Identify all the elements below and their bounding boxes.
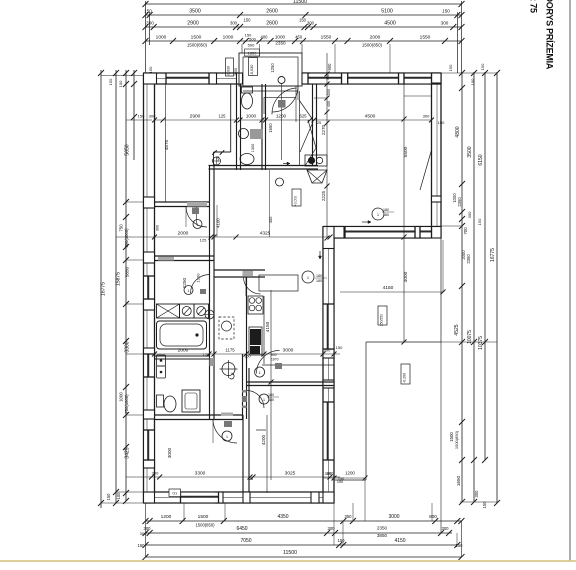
svg-text:7050: 7050 — [240, 538, 251, 544]
svg-text:-0,200: -0,200 — [403, 373, 407, 383]
svg-text:2000: 2000 — [178, 348, 189, 354]
svg-text:1500: 1500 — [191, 35, 202, 41]
svg-text:300: 300 — [146, 21, 154, 26]
svg-text:300: 300 — [230, 21, 238, 26]
svg-text:3500: 3500 — [189, 9, 201, 15]
svg-text:4150: 4150 — [383, 285, 394, 291]
svg-text:1: 1 — [263, 398, 265, 402]
svg-text:3000: 3000 — [388, 514, 399, 520]
svg-text:150: 150 — [138, 114, 145, 119]
svg-text:125: 125 — [203, 352, 210, 357]
svg-text:1200: 1200 — [196, 273, 201, 283]
svg-text:11500: 11500 — [283, 550, 297, 556]
svg-text:180: 180 — [383, 213, 389, 217]
svg-text:180: 180 — [268, 393, 274, 397]
svg-text:3850: 3850 — [377, 533, 388, 538]
svg-text:150: 150 — [144, 9, 152, 14]
svg-text:300: 300 — [140, 531, 147, 536]
svg-text:800: 800 — [271, 353, 277, 357]
svg-text:150: 150 — [438, 120, 445, 125]
svg-text:150: 150 — [244, 18, 252, 23]
svg-text:4150: 4150 — [394, 538, 405, 544]
svg-text:180: 180 — [268, 398, 274, 402]
svg-text:2350: 2350 — [466, 254, 471, 264]
svg-text:750: 750 — [119, 224, 124, 232]
svg-text:4100: 4100 — [216, 218, 221, 228]
svg-text:M 1: 75: M 1: 75 — [529, 0, 539, 13]
svg-text:1300: 1300 — [251, 144, 255, 152]
svg-text:300: 300 — [474, 490, 479, 498]
svg-text:3300: 3300 — [125, 341, 131, 352]
svg-text:1500: 1500 — [198, 514, 209, 520]
svg-text:4000: 4000 — [403, 271, 409, 282]
svg-text:180: 180 — [316, 274, 322, 278]
svg-text:125: 125 — [219, 114, 227, 119]
svg-text:5500: 5500 — [403, 146, 409, 157]
svg-text:2350: 2350 — [275, 41, 286, 46]
svg-text:4200: 4200 — [261, 434, 266, 445]
svg-text:150: 150 — [338, 477, 344, 481]
svg-text:1: 1 — [307, 276, 309, 280]
svg-text:1000: 1000 — [156, 35, 167, 41]
svg-text:3425: 3425 — [125, 447, 131, 458]
svg-text:400: 400 — [327, 101, 331, 107]
svg-text:1200: 1200 — [161, 514, 172, 520]
svg-text:400: 400 — [268, 216, 273, 223]
svg-text:4575: 4575 — [164, 139, 169, 150]
svg-text:300: 300 — [327, 471, 334, 476]
svg-text:150: 150 — [336, 345, 343, 350]
svg-text:450: 450 — [295, 35, 303, 40]
svg-text:1970: 1970 — [271, 358, 279, 362]
svg-text:4525: 4525 — [454, 324, 460, 335]
svg-text:100: 100 — [470, 78, 475, 85]
svg-text:1550: 1550 — [420, 35, 431, 41]
svg-text:300: 300 — [423, 114, 430, 119]
svg-text:1500(850): 1500(850) — [362, 43, 383, 48]
svg-text:300: 300 — [152, 471, 159, 476]
svg-text:150: 150 — [108, 78, 113, 85]
svg-text:150: 150 — [456, 543, 464, 548]
svg-text:6150: 6150 — [478, 154, 484, 165]
svg-text:3000: 3000 — [283, 348, 294, 354]
svg-text:150: 150 — [477, 218, 482, 225]
svg-text:1: 1 — [188, 289, 190, 293]
svg-text:1: 1 — [197, 223, 199, 227]
svg-text:10075: 10075 — [467, 330, 473, 344]
svg-text:150: 150 — [448, 64, 453, 71]
svg-text:2600: 2600 — [266, 9, 278, 15]
svg-text:6450: 6450 — [236, 526, 247, 532]
svg-text:2900: 2900 — [190, 114, 201, 120]
svg-text:5100: 5100 — [381, 9, 393, 15]
svg-text:150: 150 — [480, 63, 485, 70]
svg-text:4350: 4350 — [277, 514, 288, 520]
svg-text:300: 300 — [324, 348, 331, 353]
svg-text:1175: 1175 — [225, 348, 235, 353]
svg-text:2350: 2350 — [377, 526, 388, 531]
svg-text:1: 1 — [259, 371, 261, 375]
svg-text:2225: 2225 — [321, 190, 326, 201]
svg-text:-0,030: -0,030 — [227, 66, 231, 76]
svg-text:2600: 2600 — [266, 21, 278, 27]
svg-text:25: 25 — [317, 121, 321, 125]
svg-text:11500: 11500 — [293, 0, 307, 5]
svg-text:100: 100 — [118, 80, 123, 87]
svg-text:700: 700 — [463, 227, 468, 235]
svg-text:150: 150 — [299, 18, 307, 23]
svg-text:1000: 1000 — [119, 392, 124, 402]
svg-text:300: 300 — [307, 21, 315, 26]
svg-text:16775: 16775 — [101, 282, 107, 296]
svg-text:150: 150 — [338, 538, 346, 543]
svg-text:350: 350 — [345, 514, 353, 519]
svg-text:150: 150 — [442, 9, 450, 14]
svg-text:3500: 3500 — [467, 146, 473, 157]
svg-text:1500(850): 1500(850) — [195, 523, 215, 528]
svg-text:PÔDORYS PRÍZEMIA: PÔDORYS PRÍZEMIA — [545, 0, 556, 70]
svg-text:180: 180 — [383, 208, 389, 212]
svg-text:1250: 1250 — [270, 63, 275, 73]
svg-text:4325: 4325 — [260, 231, 271, 237]
svg-text:800: 800 — [429, 514, 437, 519]
svg-text:2000: 2000 — [370, 35, 381, 41]
svg-text:300: 300 — [149, 114, 156, 119]
svg-text:1: 1 — [226, 435, 228, 439]
svg-text:25: 25 — [249, 477, 253, 481]
svg-text:5650: 5650 — [125, 144, 131, 155]
svg-text:300: 300 — [442, 526, 450, 531]
svg-text:2350: 2350 — [457, 197, 462, 207]
svg-text:3000: 3000 — [167, 447, 172, 458]
svg-text:300: 300 — [326, 74, 330, 80]
svg-text:150: 150 — [138, 543, 146, 548]
svg-text:180: 180 — [316, 279, 322, 283]
svg-text:4500: 4500 — [365, 114, 376, 120]
svg-text:125: 125 — [200, 238, 207, 243]
svg-text:150: 150 — [148, 66, 153, 73]
svg-text:900: 900 — [327, 63, 332, 71]
svg-text:2000: 2000 — [178, 231, 189, 237]
svg-text:1550: 1550 — [321, 35, 332, 41]
svg-text:1000: 1000 — [275, 35, 286, 40]
svg-text:500: 500 — [249, 37, 256, 42]
svg-text:1: 1 — [377, 213, 379, 217]
svg-text:150: 150 — [482, 501, 487, 509]
svg-text:500(1000): 500(1000) — [124, 228, 129, 248]
svg-text:1200: 1200 — [345, 471, 355, 476]
svg-text:150: 150 — [106, 493, 111, 501]
svg-text:1200: 1200 — [276, 114, 287, 119]
svg-text:1500(850): 1500(850) — [187, 43, 208, 48]
svg-text:2900: 2900 — [187, 21, 199, 27]
svg-text:100: 100 — [116, 492, 121, 500]
svg-text:1650: 1650 — [456, 475, 461, 486]
svg-text:1000: 1000 — [223, 35, 234, 41]
svg-text:2270: 2270 — [321, 124, 326, 135]
svg-text:5850: 5850 — [125, 266, 130, 277]
svg-text:O1: O1 — [172, 492, 177, 496]
svg-text:4500: 4500 — [384, 21, 396, 27]
svg-text:15875: 15875 — [116, 272, 122, 286]
svg-text:625: 625 — [300, 114, 308, 119]
svg-text:+0,000: +0,000 — [294, 196, 298, 207]
svg-text:3025: 3025 — [285, 471, 296, 477]
svg-text:1650: 1650 — [268, 123, 273, 133]
svg-text:300: 300 — [467, 211, 472, 218]
svg-text:2000: 2000 — [234, 68, 238, 76]
svg-text:500: 500 — [248, 43, 255, 48]
svg-text:10375: 10375 — [478, 336, 484, 350]
svg-text:-0,030: -0,030 — [250, 65, 254, 76]
svg-text:500: 500 — [327, 89, 331, 95]
svg-text:300: 300 — [441, 21, 449, 26]
svg-text:1000: 1000 — [246, 114, 257, 119]
svg-text:300: 300 — [156, 225, 160, 231]
svg-text:400: 400 — [261, 35, 269, 40]
svg-text:3300: 3300 — [195, 471, 206, 477]
svg-text:4150: 4150 — [265, 321, 271, 332]
svg-text:16775: 16775 — [490, 248, 496, 262]
svg-text:1500(850): 1500(850) — [454, 430, 459, 449]
svg-text:750(1600): 750(1600) — [124, 394, 129, 414]
svg-text:4800: 4800 — [455, 126, 461, 137]
svg-text:250/250: 250/250 — [380, 314, 384, 326]
